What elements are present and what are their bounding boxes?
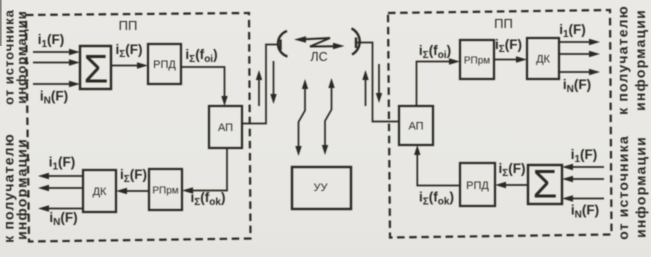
wire: right АП up to РПрм xyxy=(417,58,461,106)
svg-text:УУ: УУ xyxy=(314,182,329,194)
block РПрм (right receiver) xyxy=(460,40,494,79)
svg-text:РПД: РПД xyxy=(153,59,176,71)
block РПД (right transmitter) xyxy=(460,163,495,206)
svg-text:АП: АП xyxy=(408,121,423,133)
svg-text:информации: информации xyxy=(632,9,648,111)
svg-text:ДК: ДК xyxy=(93,186,107,198)
svg-text:информации: информации xyxy=(14,10,29,103)
vertical label: от источника информации (bottom-right) xyxy=(615,135,649,240)
antenna (left) xyxy=(278,31,288,57)
lightning control arrow 2 (to УУ) xyxy=(322,78,335,155)
wire: output i2 from left ДК xyxy=(38,185,83,191)
wire: right РПрм to ДК xyxy=(494,56,527,62)
svg-text:Σ: Σ xyxy=(533,163,558,207)
svg-text:РПД: РПД xyxy=(466,180,489,192)
svg-text:РПрм: РПрм xyxy=(464,56,490,67)
wire: output i2 from right ДК xyxy=(559,51,600,57)
wire: input i1 into right Σ xyxy=(562,164,604,170)
arrow down (left feed, from antenna) xyxy=(270,61,276,104)
wire: left Σ to РПД xyxy=(111,62,148,68)
svg-text:ЛС: ЛС xyxy=(310,50,327,64)
transmitter/receiver dashed enclosure ПП (left) xyxy=(26,13,251,242)
svg-text:РПрм: РПрм xyxy=(152,186,178,197)
block АП (right) xyxy=(399,106,433,145)
wire: left РПрм to ДК xyxy=(116,188,149,194)
block РПД (left transmitter) xyxy=(148,44,181,84)
wire: output iN from right ДК xyxy=(559,69,600,75)
arrow up (left feed, to antenna) xyxy=(256,70,262,106)
wire: right РПД to АП xyxy=(414,145,460,186)
vertical label: к получателю информации (bottom-left) xyxy=(1,133,30,243)
wire: output iN from left ДК xyxy=(38,205,83,211)
block Σ summator (right transmitter) xyxy=(528,163,562,207)
arrow down (right feed, from antenna) xyxy=(376,64,382,103)
wire: input i2 into right Σ xyxy=(562,176,604,182)
wire: input iN into right Σ xyxy=(562,195,604,201)
svg-text:Σ: Σ xyxy=(84,48,109,92)
svg-text:ПП: ПП xyxy=(494,16,513,31)
wire: output i1 from left ДК xyxy=(38,173,83,179)
block АП (left) xyxy=(209,106,242,148)
wire: left АП to antenna feed xyxy=(242,45,279,124)
block Σ summator (left transmitter) xyxy=(80,46,111,92)
block ДК (left receiver) xyxy=(83,170,116,212)
wire: input i2 into left Σ xyxy=(33,59,80,65)
transmitter/receiver dashed enclosure ПП (right) xyxy=(388,10,612,238)
wire: input iN into left Σ xyxy=(33,81,80,87)
lightning control arrow 1 (to УУ) xyxy=(295,79,308,156)
vertical label: к получателю информации (top-right) xyxy=(615,5,649,115)
block РПрм (left receiver) xyxy=(149,169,182,210)
radio link zigzag arrow ЛС xyxy=(294,36,345,49)
wire: left РПД to АП xyxy=(181,67,228,106)
svg-text:информации: информации xyxy=(633,136,649,238)
svg-text:АП: АП xyxy=(218,122,233,134)
block УУ (control unit) xyxy=(292,167,351,209)
block ДК (right receiver) xyxy=(527,38,559,79)
svg-text:информации: информации xyxy=(14,138,30,240)
svg-text:ДК: ДК xyxy=(536,54,550,66)
wire: right antenna feed to АП xyxy=(357,43,400,122)
wire: left АП down to РПрм xyxy=(182,148,227,194)
wire: output i1 from right ДК xyxy=(559,39,600,45)
wire: input i1 into left Σ xyxy=(33,49,80,55)
vertical label: от источника информации (top-left) xyxy=(2,9,30,105)
svg-text:к получателю: к получателю xyxy=(615,5,631,115)
arrow up (right feed, to antenna) xyxy=(362,70,368,106)
wire: right Σ to РПД xyxy=(495,182,528,188)
svg-text:от источника: от источника xyxy=(615,135,631,240)
antenna (right) xyxy=(352,29,360,55)
svg-text:ПП: ПП xyxy=(119,18,138,33)
